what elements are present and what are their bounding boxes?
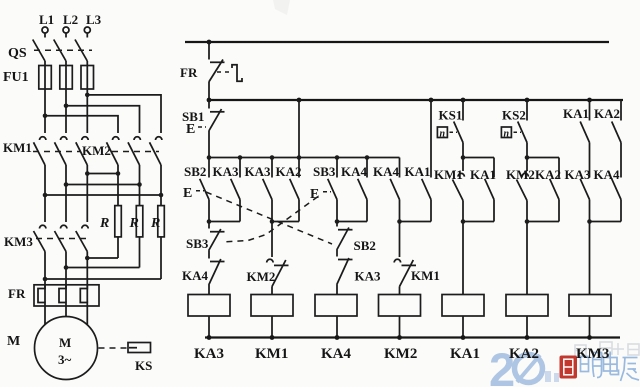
wire R2 bottom to KM3p2: [66, 267, 140, 269]
wire coil7 to rail: [589, 316, 591, 338]
svg-text:KA4: KA4: [594, 167, 621, 182]
svg-text:KM2: KM2: [247, 269, 276, 284]
wire cross line KM1p2 to R2 column: [66, 184, 140, 186]
svg-text:KA3: KA3: [565, 167, 592, 182]
wire merge col2: [272, 221, 299, 223]
coil KM2: [379, 295, 421, 317]
wire KS1 minibus: [463, 157, 494, 159]
svg-text:E: E: [186, 122, 195, 137]
relay contact KA1 NO (col5): [485, 158, 494, 222]
relay FR NC contact (control): [209, 42, 225, 100]
pushbutton SB3 NO contact: [328, 158, 337, 222]
wire merge col4: [400, 221, 432, 223]
contactor KM3 main contact 2: [55, 185, 67, 289]
KS2 n-box actuator: [501, 127, 521, 140]
KM3 linkage dashed: [36, 238, 90, 240]
svg-text:R: R: [99, 216, 109, 231]
node rail2 drop 431: [429, 98, 434, 103]
node tap L1: [43, 114, 48, 119]
wire merge col3: [337, 221, 367, 223]
node tap L3: [85, 93, 90, 98]
node merge col6: [525, 219, 530, 224]
FR heater element 1: [38, 285, 45, 306]
pushbutton SB3 NC (col1): [209, 222, 225, 259]
node KS1 minibus: [461, 155, 466, 160]
svg-text:KS: KS: [135, 358, 152, 373]
wire coil1 to rail: [208, 316, 210, 338]
svg-text:KA4: KA4: [373, 164, 400, 179]
svg-text:L3: L3: [86, 12, 102, 27]
FR heater element 3: [80, 285, 87, 306]
node KS2 minibus: [525, 155, 530, 160]
node rail2 drop 589: [587, 98, 592, 103]
wire cross line KM1p1 to R3 column: [45, 194, 161, 196]
svg-text:FR: FR: [180, 65, 198, 80]
wire KS2 minibus: [527, 157, 559, 159]
svg-text:SB3: SB3: [313, 164, 336, 179]
svg-text:KA3: KA3: [355, 269, 382, 284]
contactor KM2 main contact 3: [150, 137, 162, 206]
wire col6 merge to coil: [526, 222, 528, 295]
wire col7 merge to coil: [589, 222, 591, 295]
resistor R (phase 2): [136, 206, 143, 268]
switch QS pole 1: [33, 33, 45, 61]
watermark character dian: [604, 352, 619, 375]
svg-text:KM1: KM1: [411, 268, 440, 283]
svg-text:KA1: KA1: [470, 167, 496, 182]
node tap L2: [64, 104, 69, 109]
coil KM1: [251, 295, 293, 317]
mechanical link dashed SB3: [223, 197, 318, 243]
contactor aux KM2 NC (col2): [267, 222, 289, 295]
KM2 linkage dashed: [112, 151, 159, 153]
svg-text:SB3: SB3: [186, 236, 209, 251]
coil KA3: [188, 295, 230, 317]
node rail3 3: [335, 335, 340, 340]
node merge col5: [461, 219, 466, 224]
wire cross line KM1p3 to R1 column: [87, 173, 118, 175]
node merge col7: [587, 219, 592, 224]
wire R1 bottom to KM3p3: [87, 257, 118, 259]
relay contact KA3 NO (col7): [580, 179, 589, 222]
wire L1 pole through fuse: [44, 61, 46, 133]
svg-text:KA3: KA3: [213, 164, 240, 179]
svg-text:KM3: KM3: [4, 234, 33, 249]
node rail3 4: [397, 335, 402, 340]
relay contact KA4 NO (b): [390, 158, 399, 222]
FR dashed link: [217, 71, 231, 73]
relay contact KA4 NO (a): [358, 158, 367, 222]
svg-text:KM1: KM1: [255, 346, 288, 362]
relay contact KA2 NO (col6): [550, 158, 559, 222]
svg-text:KA2: KA2: [594, 106, 620, 121]
wire rung bus: [209, 157, 400, 159]
relay contact KA2 NO (col8 top): [612, 100, 621, 178]
fuse FU1 pole 1: [39, 66, 52, 90]
svg-text:KA2: KA2: [535, 167, 561, 182]
wire FR to motor phase3: [86, 306, 88, 325]
svg-text:KM2: KM2: [384, 346, 417, 362]
wire merge col6: [527, 221, 559, 223]
bottom rail N: [205, 336, 620, 338]
QS linkage dashed: [34, 49, 92, 51]
speed switch KS box: [128, 343, 151, 353]
watermark red seal with ri character: [560, 356, 578, 379]
node R2 bottom: [64, 265, 69, 270]
fuse FU1 pole 3: [81, 66, 94, 90]
KM1 linkage dashed: [33, 151, 80, 153]
svg-text:L2: L2: [63, 12, 78, 27]
switch QS pole 3: [75, 33, 87, 61]
wire FR to motor phase2: [65, 306, 67, 317]
contactor KM1 main contact 2: [55, 137, 67, 185]
node cross3 right: [116, 171, 121, 176]
svg-text:KM1: KM1: [434, 167, 463, 182]
watermark ghost glyphs: [575, 342, 639, 356]
speed switch KS1 contact: [454, 100, 463, 158]
svg-text:KM1: KM1: [3, 140, 32, 155]
svg-text:KA3: KA3: [194, 346, 224, 362]
pushbutton SB2 NO contact: [200, 158, 209, 222]
svg-text:M: M: [7, 334, 20, 349]
svg-text:KS2: KS2: [502, 108, 526, 123]
node merge col2: [270, 219, 275, 224]
coil KA4: [315, 295, 357, 317]
node cross1 right: [159, 193, 164, 198]
contactor KM2 main contact 1: [107, 137, 119, 206]
node merge col4: [397, 219, 402, 224]
relay contact KA3 NO (a): [231, 158, 240, 222]
svg-text:M: M: [59, 335, 71, 350]
svg-text:KA4: KA4: [321, 346, 352, 362]
svg-text:R: R: [129, 216, 139, 231]
second rail: [209, 99, 623, 101]
node cross1 left: [43, 193, 48, 198]
node merge col1: [207, 219, 212, 224]
svg-text:R: R: [150, 216, 160, 231]
node rail2 drop 463: [461, 98, 466, 103]
wire merge col1: [209, 221, 240, 223]
wire FR to motor phase1: [44, 306, 46, 325]
pushbutton SB2 NC (col3): [337, 222, 353, 257]
contactor aux KM2 NO contact: [517, 158, 529, 222]
motor M circle: [35, 317, 98, 380]
node R1 bottom: [85, 256, 90, 261]
svg-text:n: n: [504, 129, 510, 140]
node bus 367: [365, 155, 370, 160]
wire L3 pole through fuse: [86, 61, 88, 133]
watermark faint dots: [545, 371, 559, 382]
KS1 n-box actuator: [437, 127, 457, 140]
resistor R (phase 1): [115, 206, 122, 258]
wire tap L2 to KM2 pole2: [66, 106, 140, 133]
speed switch KS2 contact: [518, 100, 527, 158]
thermal relay FR block: [34, 285, 99, 306]
node bus 272: [270, 155, 275, 160]
node rail3 2: [270, 335, 275, 340]
coil KA2: [506, 295, 548, 317]
relay contact KA1 NO (col7 top): [580, 100, 589, 178]
mechanical link dashed SB2: [206, 192, 332, 244]
coil KA1: [442, 295, 484, 317]
node rail3 1: [207, 335, 212, 340]
relay contact KA1 NO (col4): [422, 100, 431, 222]
relay contact KA3 NO (b): [263, 158, 272, 222]
coil KM3: [569, 295, 611, 317]
contactor aux KM1 NO contact: [453, 158, 465, 222]
node cross2 left: [64, 182, 69, 187]
node cross2 right: [137, 182, 142, 187]
watermark circle logo: [515, 355, 543, 383]
relay contact KA4 NC (col1): [209, 259, 225, 295]
svg-text:KS1: KS1: [439, 108, 463, 123]
node R3 bottom: [43, 277, 48, 282]
svg-text:KA1: KA1: [563, 106, 589, 121]
terminal L3: [84, 27, 90, 33]
FR heater element 2: [59, 285, 66, 306]
node bus 299: [297, 155, 302, 160]
wire R3 bottom to KM3p1: [45, 278, 161, 280]
contactor KM1 main contact 1: [34, 137, 46, 195]
svg-text:L1: L1: [39, 12, 54, 27]
wire col5 merge to coil: [462, 222, 464, 295]
terminal L1: [42, 27, 48, 33]
dashed link motor to KS: [99, 347, 128, 349]
switch QS pole 2: [54, 33, 66, 61]
fuse FU1 pole 2: [60, 66, 73, 90]
svg-text:KM2: KM2: [506, 167, 535, 182]
node rail1 FR drop: [207, 40, 212, 45]
node rail2 drop 527: [525, 98, 530, 103]
node merge col3: [335, 219, 340, 224]
svg-text:KA1: KA1: [450, 346, 480, 362]
node rail2 at SB1: [207, 98, 212, 103]
relay contact KA3 NC (col3): [337, 258, 353, 295]
node bus 337: [335, 155, 340, 160]
node rail3 7: [587, 335, 592, 340]
wire L2 pole through fuse: [65, 61, 67, 133]
svg-text:KA2: KA2: [276, 164, 302, 179]
SB2 actuator E: [183, 186, 204, 201]
wire tap L1 to KM2 pole1: [45, 116, 118, 133]
relay contact KA4 NO (col8): [612, 179, 621, 222]
svg-text:KA4: KA4: [341, 164, 368, 179]
svg-text:FU1: FU1: [3, 70, 29, 85]
wire coil4 to rail: [399, 316, 401, 338]
svg-text:KA2: KA2: [509, 346, 539, 362]
wire tap L3 to KM2 pole3: [87, 95, 161, 133]
svg-text:KA1: KA1: [405, 164, 431, 179]
svg-text:SB2: SB2: [354, 238, 376, 253]
wire coil2 to rail: [271, 316, 273, 338]
node bus 209: [207, 155, 212, 160]
node rail2 drop 299: [297, 98, 302, 103]
SB3 actuator E: [310, 187, 331, 202]
node cross3 left: [85, 171, 90, 176]
FR heater hook symbol: [232, 65, 242, 81]
svg-text:KM3: KM3: [576, 346, 609, 362]
contactor aux KM1 NC (col4): [394, 222, 416, 295]
wire drop 299 from rail2 to bus: [298, 100, 300, 158]
wire coil5 to rail: [462, 316, 464, 338]
svg-text:n: n: [440, 129, 446, 140]
pushbutton SB1 NC: [209, 100, 225, 158]
contactor KM2 main contact 2: [128, 137, 140, 206]
contactor KM1 main contact 3: [76, 137, 88, 174]
watermark character chen: [621, 358, 640, 382]
svg-text:E: E: [183, 186, 192, 201]
node bus 240: [238, 155, 243, 160]
resistor R (phase 3): [158, 206, 165, 279]
faint scan smudge top: [273, 0, 290, 15]
svg-text:QS: QS: [8, 46, 27, 61]
node rail3 6: [525, 335, 530, 340]
wire coil3 to rail: [336, 316, 338, 338]
watermark character ming: [581, 353, 602, 378]
svg-text:KA4: KA4: [182, 268, 209, 283]
svg-text:FR: FR: [8, 286, 26, 301]
contactor KM3 main contact 1: [34, 195, 46, 289]
wire merge col7: [590, 221, 622, 223]
svg-text:SB2: SB2: [184, 164, 206, 179]
relay contact KA2 NO: [290, 158, 299, 222]
contactor KM3 main contact 3: [76, 174, 88, 289]
terminal L2: [63, 27, 69, 33]
wire merge col5: [463, 221, 494, 223]
svg-text:KM2: KM2: [82, 143, 111, 158]
top rail L: [185, 41, 609, 43]
SB1 actuator E: [186, 122, 206, 137]
wire coil6 to rail: [526, 316, 528, 338]
svg-text:KA3: KA3: [245, 164, 272, 179]
node rail3 5: [461, 335, 466, 340]
svg-text:3~: 3~: [58, 352, 72, 367]
